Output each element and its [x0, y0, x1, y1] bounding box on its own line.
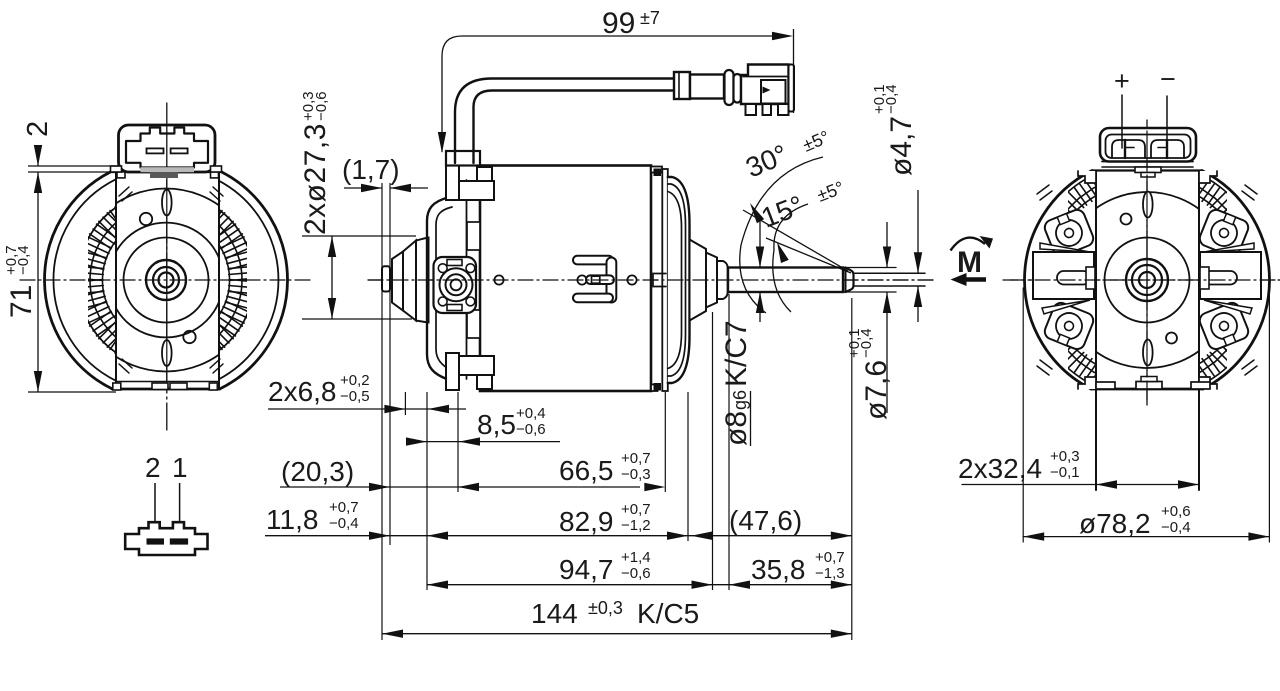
- harness connector: housing body: [741, 65, 789, 105]
- right view: terminal blade right: [1166, 140, 1168, 158]
- svg-text:+0,7: +0,7: [815, 549, 845, 566]
- harness connector: cavity arrow: [763, 87, 771, 94]
- left view: magnet spring teeth right sector: [177, 192, 256, 363]
- harness connector: crimp sleeve: [674, 72, 690, 99]
- dimension 71: dim line: [37, 172, 39, 392]
- harness connector: seal ring 2: [734, 74, 742, 103]
- dimension 8,5: line and arrows: [406, 441, 560, 443]
- right view: bottom foot left: [1096, 382, 1115, 389]
- middle view: flange screw hole 1: [438, 264, 447, 273]
- dimension 71: arrow down: [34, 371, 42, 392]
- left view: housing rim lip right: [211, 166, 222, 172]
- middle view: shaft groove line: [845, 268, 847, 293]
- svg-text:2xø27,3: 2xø27,3: [299, 123, 332, 235]
- left view: bottom vent slot: [162, 340, 172, 366]
- dimension 144: line: [382, 633, 852, 635]
- right view: terminal pocket right: [1151, 140, 1184, 158]
- svg-text:82,9: 82,9: [559, 506, 614, 537]
- left view: bottom center pad 2: [170, 383, 187, 390]
- svg-text:ø8: ø8: [720, 411, 753, 446]
- left view: vertical centerline overlay: [166, 180, 168, 382]
- right view: centerline overlays: [1010, 279, 1280, 281]
- right view: vertical centerline: [1146, 120, 1148, 405]
- svg-text:−1,2: −1,2: [621, 517, 651, 534]
- middle view: top clip vertical strip: [446, 163, 459, 200]
- left view: magnet clip ticks top-right: [210, 187, 223, 201]
- right view: band top tab left: [1078, 171, 1096, 183]
- right view: hub ring r15: [1132, 265, 1162, 295]
- left view: magnet clip ticks bottom-right: [210, 359, 223, 373]
- svg-text:−0,6: −0,6: [621, 565, 651, 582]
- right view: terminal blade left: [1124, 140, 1126, 158]
- right view: top vent slot: [1143, 192, 1153, 218]
- left view: connector blade slot 1: [147, 148, 164, 153]
- dimension row (20,3)/66,5: line: [280, 486, 640, 488]
- svg-text:ø4,7: ø4,7: [885, 116, 918, 176]
- right view: band bottom tab right: [1199, 377, 1217, 389]
- bottom dim extension line x=688: [687, 392, 689, 541]
- middle view: front bearing middle circle: [446, 274, 467, 295]
- left view: housing top flat: [110, 171, 221, 173]
- middle view: flange screw hole 3: [438, 297, 447, 306]
- middle view: end bell dome: [668, 177, 690, 383]
- datum extension line A (x=382): [381, 183, 383, 640]
- bottom dim extension line x=712.5: [712, 312, 714, 590]
- dimension 15/30 deg: rays from shaft tip: [743, 210, 848, 271]
- svg-text:K/C5: K/C5: [637, 598, 699, 629]
- bottom dim extension line x=458: [457, 392, 459, 492]
- middle view: horizontal axis centerline: [368, 279, 935, 281]
- middle view: motor can body: [480, 166, 651, 392]
- dimension row 94,7/35,8: line: [427, 584, 852, 586]
- svg-text:2: 2: [22, 121, 54, 137]
- middle view: vent top arm: [573, 256, 613, 265]
- harness connector: terminal cavity: [761, 80, 786, 104]
- plug detail: leader line pin 1: [179, 483, 181, 540]
- svg-text:±7: ±7: [640, 8, 660, 28]
- middle view: can rivet left: [494, 275, 503, 284]
- dimension o7,6: upper arrow: [886, 222, 888, 268]
- left view: connector centerline overlay: [166, 125, 168, 167]
- middle view: end bell inner contour 2: [668, 192, 682, 369]
- svg-text:8,5: 8,5: [477, 409, 516, 440]
- right view: brush plate band left edge: [1095, 171, 1097, 491]
- harness connector: bottom tab 1: [746, 104, 757, 115]
- middle view: front bearing outer circle: [440, 268, 473, 301]
- right view: bottom foot center: [1136, 382, 1162, 390]
- middle view: cable boot on can top: [446, 151, 480, 166]
- svg-text:(47,6): (47,6): [729, 505, 802, 536]
- left view: magnet clip ticks bottom-left: [119, 359, 132, 373]
- dimension 99±7: right arrow: [772, 32, 793, 40]
- middle view: top clip foot: [459, 181, 494, 200]
- right view: bearing boss circle: [1105, 238, 1190, 323]
- harness connector: inner top wall: [743, 76, 787, 78]
- right view: lamination circle clipped: [1059, 192, 1235, 368]
- svg-text:−0,3: −0,3: [621, 466, 651, 483]
- left view: connector blade slot 2: [171, 148, 188, 153]
- datum extension line B (x=390): [389, 183, 391, 545]
- middle view: can top-right step: [651, 167, 662, 173]
- bottom dim extension line x=665: [664, 392, 666, 492]
- left view: inner wall bottom flat: [116, 381, 219, 383]
- svg-text:−0,4: −0,4: [329, 515, 359, 532]
- dimension 71: arrow up: [34, 172, 42, 193]
- rotation symbol arc arrow: [951, 238, 986, 251]
- left view: inner shell wall left arc: [53, 179, 116, 381]
- svg-text:+0,7: +0,7: [329, 499, 359, 516]
- dimension o4,7: upper arrow: [917, 190, 919, 273]
- svg-text:M: M: [957, 246, 982, 279]
- middle view: flange screw hole 2: [466, 264, 475, 273]
- middle view: front boss cone: [403, 241, 416, 321]
- svg-text:−0,6: −0,6: [313, 91, 330, 121]
- left view: shaft end circle r7.5: [159, 273, 174, 288]
- right view: band top tab right: [1199, 171, 1217, 183]
- svg-text:−0,6: −0,6: [516, 421, 546, 438]
- right view: bottom vent slot: [1143, 340, 1153, 366]
- dimension o78,2: dim line: [1023, 536, 1269, 538]
- left view: brush plate band right edge: [218, 172, 220, 389]
- bottom dim extension line x=405: [404, 392, 406, 415]
- right view: connector housing outer: [1100, 128, 1196, 162]
- dimension 15 deg: arc: [773, 204, 808, 312]
- right view: teeth left sector: [1028, 165, 1131, 393]
- right view: brush box bottom-right: [1197, 301, 1250, 352]
- svg-text:−0,4: −0,4: [883, 84, 900, 114]
- middle view: front bearing inner circle: [451, 279, 462, 290]
- right view: plus leader line: [1121, 95, 1123, 148]
- harness connector: face plate: [789, 65, 795, 112]
- dimension o4,7: lower arrow: [917, 286, 919, 322]
- dimension o78,2: extension lines: [1022, 288, 1024, 542]
- middle view: vent bottom arm: [573, 294, 613, 303]
- dimension 2: arrow down: [37, 146, 39, 166]
- left view: bearing boss circle: [124, 238, 209, 323]
- svg-text:−0,1: −0,1: [1050, 464, 1080, 481]
- middle view: vent detail square: [592, 276, 600, 283]
- harness connector: rubber boot: [690, 75, 724, 99]
- middle view: end bell top tab: [654, 169, 662, 177]
- right view: pole housing outer shell right arc: [1202, 171, 1270, 390]
- svg-text:−0,5: −0,5: [340, 388, 370, 405]
- left view: armature lamination circle clipped to band: [75, 189, 258, 372]
- dimension 2: extension line lower: [28, 171, 109, 173]
- right view: spring bar left: [1033, 252, 1094, 299]
- left view: hub ring r13: [153, 267, 179, 293]
- left view: pole housing outer shell left arc: [45, 172, 113, 389]
- svg-text:+0,7: +0,7: [621, 501, 651, 518]
- middle view: vent right column: [607, 258, 617, 303]
- left view: connector base dark pad: [150, 172, 178, 178]
- svg-text:+0,7: +0,7: [621, 450, 651, 467]
- right view: shaft circle r8: [1139, 272, 1155, 288]
- left view: inner shell wall right arc: [219, 181, 278, 379]
- dimension 2xo27,3: vertical dim line with arrows: [331, 236, 333, 319]
- svg-text:−0,4: −0,4: [858, 328, 875, 358]
- harness connector: seal ring 1: [725, 70, 734, 105]
- right view: connector base lines: [1102, 161, 1193, 163]
- svg-text:(20,3): (20,3): [281, 456, 354, 487]
- middle view: endshield inner profile: [436, 207, 452, 371]
- dimension o7,6: lower arrow: [886, 292, 888, 413]
- bottom dim extension line x=852 (shaft tip): [851, 298, 853, 640]
- middle view: top clip nub: [477, 167, 492, 181]
- middle view: end bell centerline notch: [653, 274, 666, 287]
- left view: magnet clip ticks top-left: [119, 187, 132, 201]
- middle view: endshield outer profile: [427, 198, 448, 380]
- dimension o8g6: fit underline: [750, 391, 752, 446]
- right view: minus leader line: [1166, 96, 1168, 154]
- middle view: end bell flange strip: [662, 169, 668, 391]
- left view: lower rivet hole: [183, 331, 195, 343]
- right view: upper rivet hole: [1121, 214, 1132, 225]
- dimension o8g6: lower arrow: [759, 292, 761, 322]
- right view: seam clip ticks upper-right: [1242, 185, 1257, 200]
- middle view: front boss step small: [392, 252, 403, 311]
- middle view: end bell bottom tab: [654, 383, 662, 391]
- svg-text:+0,6: +0,6: [1161, 503, 1191, 520]
- right view: terminal pocket left: [1112, 140, 1145, 158]
- left view: connector side foot left: [117, 172, 125, 178]
- left view: housing bottom flat: [112, 388, 219, 391]
- plug detail: terminal pad 2 (filled): [147, 538, 165, 544]
- middle view: can bottom-right step: [651, 385, 658, 392]
- svg-text:+: +: [1114, 66, 1130, 96]
- middle view: cable outer line: [455, 79, 674, 164]
- middle view: brush plate face line: [466, 180, 468, 379]
- right view: lower rivet hole: [1166, 333, 1177, 344]
- svg-text:35,8: 35,8: [751, 554, 806, 585]
- middle view: shaft OD extension lines: [843, 267, 896, 269]
- plug detail: terminal pad 1 (filled): [170, 538, 188, 544]
- dimension 99±7: leader with down arrow: [442, 36, 789, 152]
- right view: hub ring r21: [1126, 259, 1168, 301]
- svg-text:71: 71: [5, 285, 38, 318]
- right view: seam clip ticks lower-right: [1242, 360, 1257, 375]
- dimension 99±7: extension line at connector face: [793, 29, 795, 113]
- left view: top vent slot: [162, 190, 172, 216]
- svg-text:2: 2: [145, 452, 161, 483]
- right view: pole housing outer shell left arc: [1025, 171, 1093, 390]
- svg-text:144: 144: [531, 598, 578, 629]
- right view: band bottom tab left: [1078, 377, 1096, 389]
- svg-text:+0,4: +0,4: [516, 405, 546, 422]
- right view: connector base notch: [1135, 167, 1161, 173]
- middle view: flange screw hole 4: [466, 297, 475, 306]
- svg-text:+1,4: +1,4: [621, 549, 651, 566]
- right view: housing bottom flat: [1091, 388, 1203, 391]
- right view: brush box top-right: [1197, 208, 1250, 259]
- svg-text:2x6,8: 2x6,8: [268, 376, 337, 407]
- right view: seam clip ticks upper-left: [1037, 185, 1052, 200]
- left view: connector base gray pad: [141, 167, 195, 172]
- left view: bottom foot right: [209, 383, 217, 390]
- harness connector: bottom tab 3: [778, 104, 789, 115]
- svg-text:99: 99: [602, 7, 635, 40]
- dimension 2: extension line upper: [28, 165, 119, 167]
- bottom dim extension line x=729: [728, 294, 730, 590]
- right view: seam clip ticks lower-left: [1037, 360, 1052, 375]
- left view: connector side foot right: [211, 172, 219, 178]
- left view: bottom foot left: [113, 383, 121, 390]
- svg-text:+0,2: +0,2: [340, 372, 370, 389]
- left view: magnet spring teeth left sector: [77, 192, 156, 363]
- right view: housing top flat: [1092, 169, 1202, 171]
- middle view: shaft body: [728, 268, 843, 293]
- dimension 2x6,8: line and arrows: [268, 408, 466, 410]
- middle view: front bearing cap: [382, 266, 390, 291]
- svg-text:−: −: [1160, 64, 1176, 94]
- svg-text:2x32,4: 2x32,4: [958, 453, 1042, 484]
- middle view: bottom clip nub: [477, 375, 492, 389]
- plug detail: connector cross-section outline: [125, 522, 207, 555]
- right view: brush plate band right edge: [1198, 171, 1200, 491]
- svg-text:ø7,6: ø7,6: [860, 360, 893, 420]
- svg-text:−0,4: −0,4: [1161, 519, 1191, 536]
- left view: bottom center pad 1: [152, 383, 168, 390]
- middle view: flange notch bottom: [447, 305, 462, 311]
- middle view: rear bearing boss step 2: [706, 253, 717, 308]
- svg-text:−0,4: −0,4: [15, 245, 32, 275]
- dimension row 11,8/82,9/(47,6): line: [265, 535, 852, 537]
- svg-text:K/C7: K/C7: [720, 320, 753, 387]
- svg-text:11,8: 11,8: [266, 504, 318, 535]
- middle view: can rivet middle: [577, 275, 586, 284]
- middle view: vent middle arm: [586, 275, 614, 284]
- right view: brush box top-left: [1042, 208, 1095, 259]
- plug detail: leader line pin 2: [154, 483, 156, 540]
- right view: teeth right sector: [1163, 165, 1266, 393]
- left view: connector castellated inner profile: [126, 128, 208, 168]
- left view: commutator circle clipped to band: [109, 223, 224, 338]
- right view: bottom foot right: [1191, 382, 1210, 389]
- dimension o8g6: upper arrow: [759, 218, 761, 268]
- left view: horizontal centerline: [20, 279, 312, 281]
- svg-text:(1,7): (1,7): [342, 154, 400, 185]
- left view: connector housing outer: [119, 125, 216, 172]
- right view: brush box bottom-left: [1042, 301, 1095, 352]
- middle view: mounting flange plate: [434, 257, 477, 313]
- dimension 2xo27,3: extension lines: [302, 235, 416, 237]
- svg-text:−1,3: −1,3: [815, 565, 845, 582]
- middle view: front boss block: [416, 238, 429, 323]
- svg-text:94,7: 94,7: [559, 554, 614, 585]
- left view: housing rim lip left: [111, 166, 122, 172]
- left view: hub ring r20: [146, 260, 186, 300]
- right view: horizontal centerline: [1003, 279, 1280, 281]
- svg-text:g6: g6: [730, 390, 750, 410]
- harness connector: bottom tab 2: [763, 104, 772, 115]
- bottom dim extension line x=427: [426, 392, 428, 590]
- middle view: cable inner line: [474, 91, 675, 164]
- middle view: bottom clip vertical strip: [446, 353, 459, 390]
- dimension (1,7): arrows: [344, 187, 382, 189]
- left view: upper rivet hole: [140, 213, 152, 225]
- dimension 30 deg: arc: [740, 157, 823, 313]
- middle view: axis centerline overlay: [368, 279, 935, 281]
- svg-text:ø78,2: ø78,2: [1079, 508, 1151, 539]
- middle view: flange notch top: [447, 260, 462, 266]
- left view: brush plate band left edge: [115, 172, 117, 389]
- right view: connector housing inner: [1106, 135, 1191, 159]
- left view: vertical centerline: [166, 103, 168, 430]
- dimension 2x32,4: dim line: [962, 484, 1199, 486]
- middle view: brush holder lower: [467, 310, 480, 338]
- svg-text:66,5: 66,5: [559, 455, 614, 486]
- middle view: brush holder upper: [467, 222, 480, 250]
- middle view: can rivet right: [627, 275, 636, 284]
- middle view: end bell inner contour 1: [668, 184, 686, 376]
- left view: pole housing outer shell right arc: [220, 172, 288, 389]
- svg-text:+0,3: +0,3: [1050, 448, 1080, 465]
- middle view: shaft stub diameter lines: [854, 272, 925, 274]
- svg-text:1: 1: [172, 452, 188, 483]
- right view: spring bar right: [1200, 252, 1261, 299]
- dimension 71: bottom extension line: [28, 391, 116, 393]
- middle view: bottom clip foot: [459, 356, 494, 375]
- middle view: rear bearing boss step 3: [717, 261, 728, 299]
- svg-text:±0,3: ±0,3: [588, 598, 623, 618]
- middle view: rear bearing boss step 1: [690, 240, 707, 321]
- middle view: shaft tip chamfer: [846, 268, 854, 293]
